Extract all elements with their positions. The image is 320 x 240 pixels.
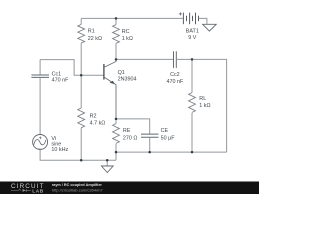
- svg-text:22 kΩ: 22 kΩ: [88, 36, 102, 42]
- svg-text:RC: RC: [122, 29, 130, 35]
- capacitor CE: [141, 134, 159, 152]
- resistor RC: [113, 18, 120, 59]
- svg-text:CE: CE: [161, 128, 169, 134]
- battery BAT1: [179, 12, 199, 24]
- node dot RL bottom: [191, 151, 194, 154]
- svg-text:4.7 kΩ: 4.7 kΩ: [90, 120, 106, 126]
- resistor RL: [189, 59, 196, 152]
- svg-text:50 µF: 50 µF: [161, 135, 176, 141]
- label R1 22 kOhm: [88, 28, 102, 42]
- node dot RL top: [191, 58, 194, 61]
- node dot base: [80, 74, 83, 77]
- wire battery to ground: [199, 18, 207, 24]
- label RE 270 Ohm: [123, 128, 138, 141]
- label Cc1 470 nF: [52, 71, 69, 83]
- svg-text:270 Ω: 270 Ω: [123, 135, 138, 141]
- svg-text:Cc1: Cc1: [52, 71, 62, 77]
- svg-text:1 kΩ: 1 kΩ: [199, 103, 210, 109]
- svg-text:LAB: LAB: [32, 188, 44, 194]
- wire emitter to RE and CE: [116, 119, 150, 134]
- svg-text:2N3904: 2N3904: [118, 76, 137, 82]
- svg-text:R1: R1: [88, 28, 95, 34]
- svg-text:470 nF: 470 nF: [52, 78, 69, 84]
- label CE 50 uF: [161, 128, 176, 141]
- ground GND2 at battery: [203, 24, 217, 31]
- logo wire with diode: [11, 189, 31, 192]
- svg-text:http://circuitlab.com/c394nh7: http://circuitlab.com/c394nh7: [52, 187, 104, 192]
- resistor R1: [78, 18, 85, 75]
- label Cc2 470 nF: [167, 72, 184, 85]
- resistor RE: [113, 119, 120, 160]
- svg-text:10 kHz: 10 kHz: [51, 147, 68, 153]
- node dot ground: [106, 159, 109, 162]
- svg-text:1 kΩ: 1 kΩ: [122, 36, 133, 42]
- svg-text:9 V: 9 V: [188, 35, 196, 41]
- ground GND1 near R2: [101, 160, 113, 172]
- node dot emitter RE top: [115, 118, 118, 121]
- svg-text:raym / RC coupled Amplifier: raym / RC coupled Amplifier: [52, 183, 103, 187]
- svg-text:RL: RL: [199, 96, 206, 102]
- node dot collector: [115, 58, 118, 61]
- wire VI bottom to ground rail: [40, 150, 116, 161]
- svg-text:Q1: Q1: [118, 70, 125, 76]
- svg-text:RE: RE: [123, 128, 131, 134]
- label VI sine 10 kHz: [51, 136, 68, 153]
- wire Cc2 to right edge: [176, 59, 226, 152]
- svg-text:470 nF: 470 nF: [167, 79, 184, 85]
- voltage source VI: [33, 135, 48, 150]
- label Q1 2N3904: [118, 70, 137, 82]
- capacitor Cc1: [31, 60, 49, 135]
- wire top rail VCC: [81, 17, 183, 19]
- svg-text:BAT1: BAT1: [186, 28, 199, 34]
- svg-text:R2: R2: [90, 113, 97, 119]
- resistor R2: [78, 75, 85, 160]
- label RC 1 kOhm: [122, 29, 133, 42]
- svg-text:Cc2: Cc2: [170, 72, 180, 78]
- capacitor Cc2: [174, 51, 177, 68]
- node dot RE bottom: [115, 151, 118, 154]
- footer watermark bar: [0, 182, 259, 195]
- label RL 1 kOhm: [199, 96, 210, 109]
- wire Cc1 to base node: [40, 60, 104, 76]
- transistor Q1: [104, 59, 116, 119]
- node dot RC top: [115, 17, 118, 20]
- label R2 4.7 kOhm: [90, 113, 106, 126]
- node dot R2 bottom: [80, 159, 83, 162]
- node dot CE bottom: [148, 151, 151, 154]
- wire output node rail: [116, 58, 174, 60]
- label BAT1 9 V: [186, 28, 199, 40]
- wire bottom output rail: [116, 151, 227, 153]
